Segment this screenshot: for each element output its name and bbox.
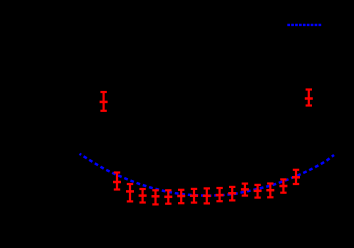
error bar point 12 (x=244.9) bbox=[241, 184, 249, 196]
error bar point 1 (x=103.6) bbox=[100, 92, 108, 111]
error bar point 2 (x=117) bbox=[113, 173, 121, 190]
fit curve: blue dashed parabola bbox=[80, 154, 335, 196]
error bar point 9 (x=206.8) bbox=[203, 188, 211, 203]
error bar point 5 (x=155.5) bbox=[152, 190, 160, 204]
error bar point 7 (x=181.2) bbox=[177, 190, 185, 203]
legend sample: blue dashed line bbox=[287, 24, 321, 26]
error bar point 4 (x=142.6) bbox=[139, 189, 147, 203]
error bar point 16 (x=296) bbox=[292, 170, 300, 184]
error bar point 6 (x=168.3) bbox=[164, 190, 172, 203]
error bar point 17 (x=308.8) bbox=[305, 90, 313, 106]
error bar point 14 (x=270.3) bbox=[266, 184, 274, 198]
error bar point 8 (x=194) bbox=[190, 189, 198, 203]
error bar point 3 (x=130) bbox=[126, 184, 134, 201]
error bar point 11 (x=232.2) bbox=[228, 187, 236, 201]
error bar point 10 (x=219.6) bbox=[216, 188, 224, 201]
error bar point 15 (x=283.4) bbox=[279, 179, 287, 192]
error bar point 13 (x=257.6) bbox=[254, 185, 262, 198]
